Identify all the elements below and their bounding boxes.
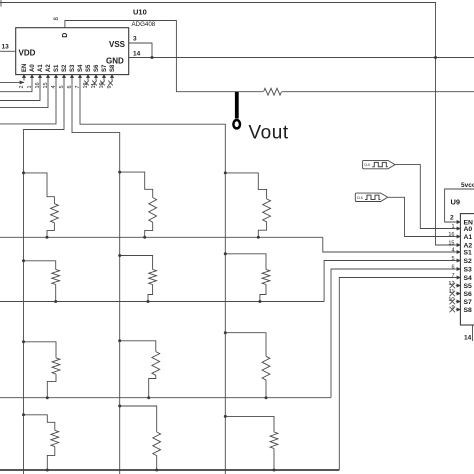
resistor R32 bottom lead — [149, 375, 156, 397]
svg-text:14: 14 — [133, 51, 141, 58]
wire left edge stub top — [0, 0, 2, 7]
resistor R41 — [51, 430, 59, 446]
svg-text:S6: S6 — [464, 291, 473, 298]
svg-text:13: 13 — [2, 44, 10, 51]
svg-text:EN: EN — [22, 64, 28, 72]
junction R21 top — [22, 259, 25, 262]
svg-text:VDD: VDD — [19, 49, 36, 58]
junction R42 bottom — [155, 469, 158, 472]
junction R12 bottom — [143, 236, 146, 239]
junction R42 top — [118, 405, 121, 408]
Vout probe ring — [233, 120, 240, 128]
svg-text:S7: S7 — [102, 64, 108, 72]
resistor R22 top lead — [120, 256, 153, 270]
svg-text:2: 2 — [450, 215, 454, 222]
svg-text:S3: S3 — [464, 266, 473, 273]
junction R13 bottom — [257, 236, 260, 239]
resistor R43 top lead — [225, 416, 274, 432]
svg-text:3: 3 — [133, 36, 137, 43]
svg-text:VSS: VSS — [109, 40, 126, 49]
wire S1 to left edge — [0, 81, 56, 124]
svg-text:Vout: Vout — [249, 122, 289, 143]
svg-text:U10: U10 — [133, 8, 147, 17]
svg-text:14: 14 — [464, 335, 472, 342]
svg-text:A1: A1 — [464, 234, 473, 241]
svg-text:A1: A1 — [38, 64, 44, 72]
IC U9 ADG408 body — [460, 214, 474, 325]
wire 5vcc to U9 EN — [445, 189, 474, 222]
resistor R43 — [270, 432, 278, 449]
junction GND top-net — [434, 56, 437, 59]
svg-text:S4: S4 — [78, 64, 84, 72]
pin 13 VDD wire — [0, 50, 16, 52]
junction R11 top — [22, 171, 25, 174]
wire S2 to column bus 1 — [24, 81, 65, 474]
U10 bottom pin name labels — [22, 64, 116, 72]
U10 pin stubs — [24, 75, 112, 81]
svg-text:S1: S1 — [464, 249, 473, 256]
resistor R32 top lead — [120, 341, 156, 352]
resistor R12 bottom lead — [145, 222, 153, 237]
svg-text:S6: S6 — [94, 64, 100, 72]
svg-text:CLK: CLK — [357, 196, 364, 200]
IC U10 ADG408 body — [16, 28, 129, 75]
svg-text:S7: S7 — [464, 299, 473, 306]
resistor R13 — [263, 199, 271, 222]
U9 pin numbers — [448, 224, 454, 311]
wire EN to left edge — [0, 81, 24, 83]
svg-text:S3: S3 — [70, 64, 76, 72]
svg-text:7: 7 — [451, 273, 454, 279]
Vout probe line — [235, 92, 239, 119]
svg-text:A0: A0 — [30, 64, 36, 72]
svg-text:U9: U9 — [451, 198, 461, 207]
junction R33 top — [224, 331, 227, 334]
junction R12 top — [118, 171, 121, 174]
junction R43 top — [224, 415, 227, 418]
junction R31 bottom — [46, 396, 49, 399]
junction R23 bottom — [258, 300, 261, 303]
svg-text:A2: A2 — [46, 64, 52, 72]
resistor R11 bottom lead — [47, 223, 54, 238]
junction R32 bottom — [147, 396, 150, 399]
wire row4 to U9 S4 — [339, 278, 456, 471]
resistor R12 — [149, 198, 157, 223]
junction VSS-GND — [151, 56, 154, 59]
svg-text:S2: S2 — [62, 64, 68, 72]
wire row3 to U9 S3 — [331, 269, 456, 398]
pin 14 GND wire — [129, 57, 474, 59]
resistor R13 top lead — [225, 173, 266, 199]
U9 pin 14 stub — [472, 325, 474, 341]
resistor R31 bottom lead — [47, 374, 56, 398]
junction R22 bottom — [147, 300, 150, 303]
junction R13 top — [224, 171, 227, 174]
resistor R33 top lead — [225, 333, 266, 357]
svg-text:2: 2 — [19, 85, 25, 88]
resistor R42 — [153, 432, 161, 456]
wire row2 to U9 S2 — [324, 261, 456, 302]
resistor R23 — [262, 269, 270, 284]
pulse source V2 — [355, 193, 387, 201]
wire S3 to column bus 2 — [72, 81, 120, 474]
svg-text:S2: S2 — [464, 258, 473, 265]
resistor R33 — [262, 356, 270, 380]
wire top net to A2 — [0, 3, 456, 246]
svg-text:6: 6 — [451, 265, 454, 271]
EN wire arrow — [20, 81, 25, 85]
svg-text:CLK: CLK — [364, 163, 371, 167]
resistor R42 top lead — [120, 406, 157, 432]
resistor R21 top lead — [24, 261, 56, 270]
svg-text:S5: S5 — [464, 283, 473, 290]
resistor R21 — [52, 269, 60, 284]
row bus 4 — [0, 469, 339, 471]
svg-text:ADG408: ADG408 — [132, 21, 156, 28]
svg-text:A2: A2 — [464, 242, 473, 249]
resistor R11 top lead — [24, 173, 55, 204]
wire V2 to U9 A1 — [388, 197, 456, 236]
svg-text:S1: S1 — [54, 64, 60, 72]
svg-text:5vcc: 5vcc — [461, 182, 474, 189]
junction R11 bottom — [46, 236, 49, 239]
resistor R11 — [51, 204, 59, 223]
resistor on output line — [263, 87, 282, 97]
svg-text:15: 15 — [448, 241, 454, 247]
resistor R23 bottom lead — [260, 285, 266, 302]
pin 8 D wire to resistor line — [65, 21, 474, 92]
U9 pin name labels — [464, 219, 474, 313]
U10 no-connect X marks S5-S8 — [84, 81, 113, 86]
svg-text:1: 1 — [451, 224, 454, 230]
svg-text:5: 5 — [451, 256, 454, 262]
junction R41 top — [22, 413, 25, 416]
row bus 2 — [0, 301, 324, 303]
junction R23 top — [224, 252, 227, 255]
junction R22 top — [118, 254, 121, 257]
U10 bottom pin numbers — [19, 82, 113, 88]
resistor R31 top lead — [24, 342, 57, 358]
svg-text:D: D — [62, 33, 69, 38]
row bus 3 — [0, 397, 331, 399]
wire row1 to U9 S1 — [323, 237, 456, 252]
svg-text:S8: S8 — [464, 307, 473, 314]
wire S4 to column bus 3 / Vout net — [80, 81, 225, 474]
resistor R22 bottom lead — [148, 285, 153, 302]
resistor R41 bottom lead — [47, 447, 55, 470]
resistor R41 top lead — [24, 415, 55, 431]
pulse source V1 — [363, 160, 395, 168]
resistor R43 bottom lead — [273, 449, 275, 471]
svg-text:S5: S5 — [86, 64, 92, 72]
resistor R13 bottom lead — [258, 222, 266, 238]
U9 pin stubs and arrows — [456, 220, 461, 312]
resistor R21 bottom lead — [55, 285, 57, 302]
row bus 1 — [0, 236, 323, 238]
svg-text:S8: S8 — [110, 64, 116, 72]
junction R31 top — [22, 340, 25, 343]
resistor R23 top lead — [225, 254, 266, 270]
junction R32 top — [118, 339, 121, 342]
wire A0 to left edge — [0, 81, 32, 92]
junction R33 bottom — [265, 396, 268, 399]
resistor R32 — [152, 352, 160, 376]
pin 3 VSS wire — [129, 43, 152, 58]
resistor R33 bottom lead — [265, 380, 267, 398]
svg-text:16: 16 — [448, 232, 454, 238]
svg-text:9: 9 — [107, 85, 113, 88]
resistor R12 top lead — [120, 172, 153, 197]
wire A2 to left edge — [0, 81, 48, 108]
resistor R22 — [149, 269, 157, 284]
junction R21 bottom — [54, 300, 57, 303]
U10 pin arrows — [22, 74, 114, 78]
svg-text:4: 4 — [451, 248, 454, 254]
resistor R31 — [52, 358, 60, 374]
resistor R42 bottom lead — [156, 456, 158, 470]
wire A1 to left edge — [0, 81, 40, 101]
svg-text:A0: A0 — [464, 226, 473, 233]
junction R43 bottom — [273, 469, 276, 472]
junction R41 bottom — [46, 469, 49, 472]
svg-text:S4: S4 — [464, 275, 473, 282]
U9 no-connect X marks S5-S8 — [450, 283, 456, 313]
svg-text:GND: GND — [106, 57, 124, 66]
wire V1 to U9 A0 — [395, 165, 456, 229]
